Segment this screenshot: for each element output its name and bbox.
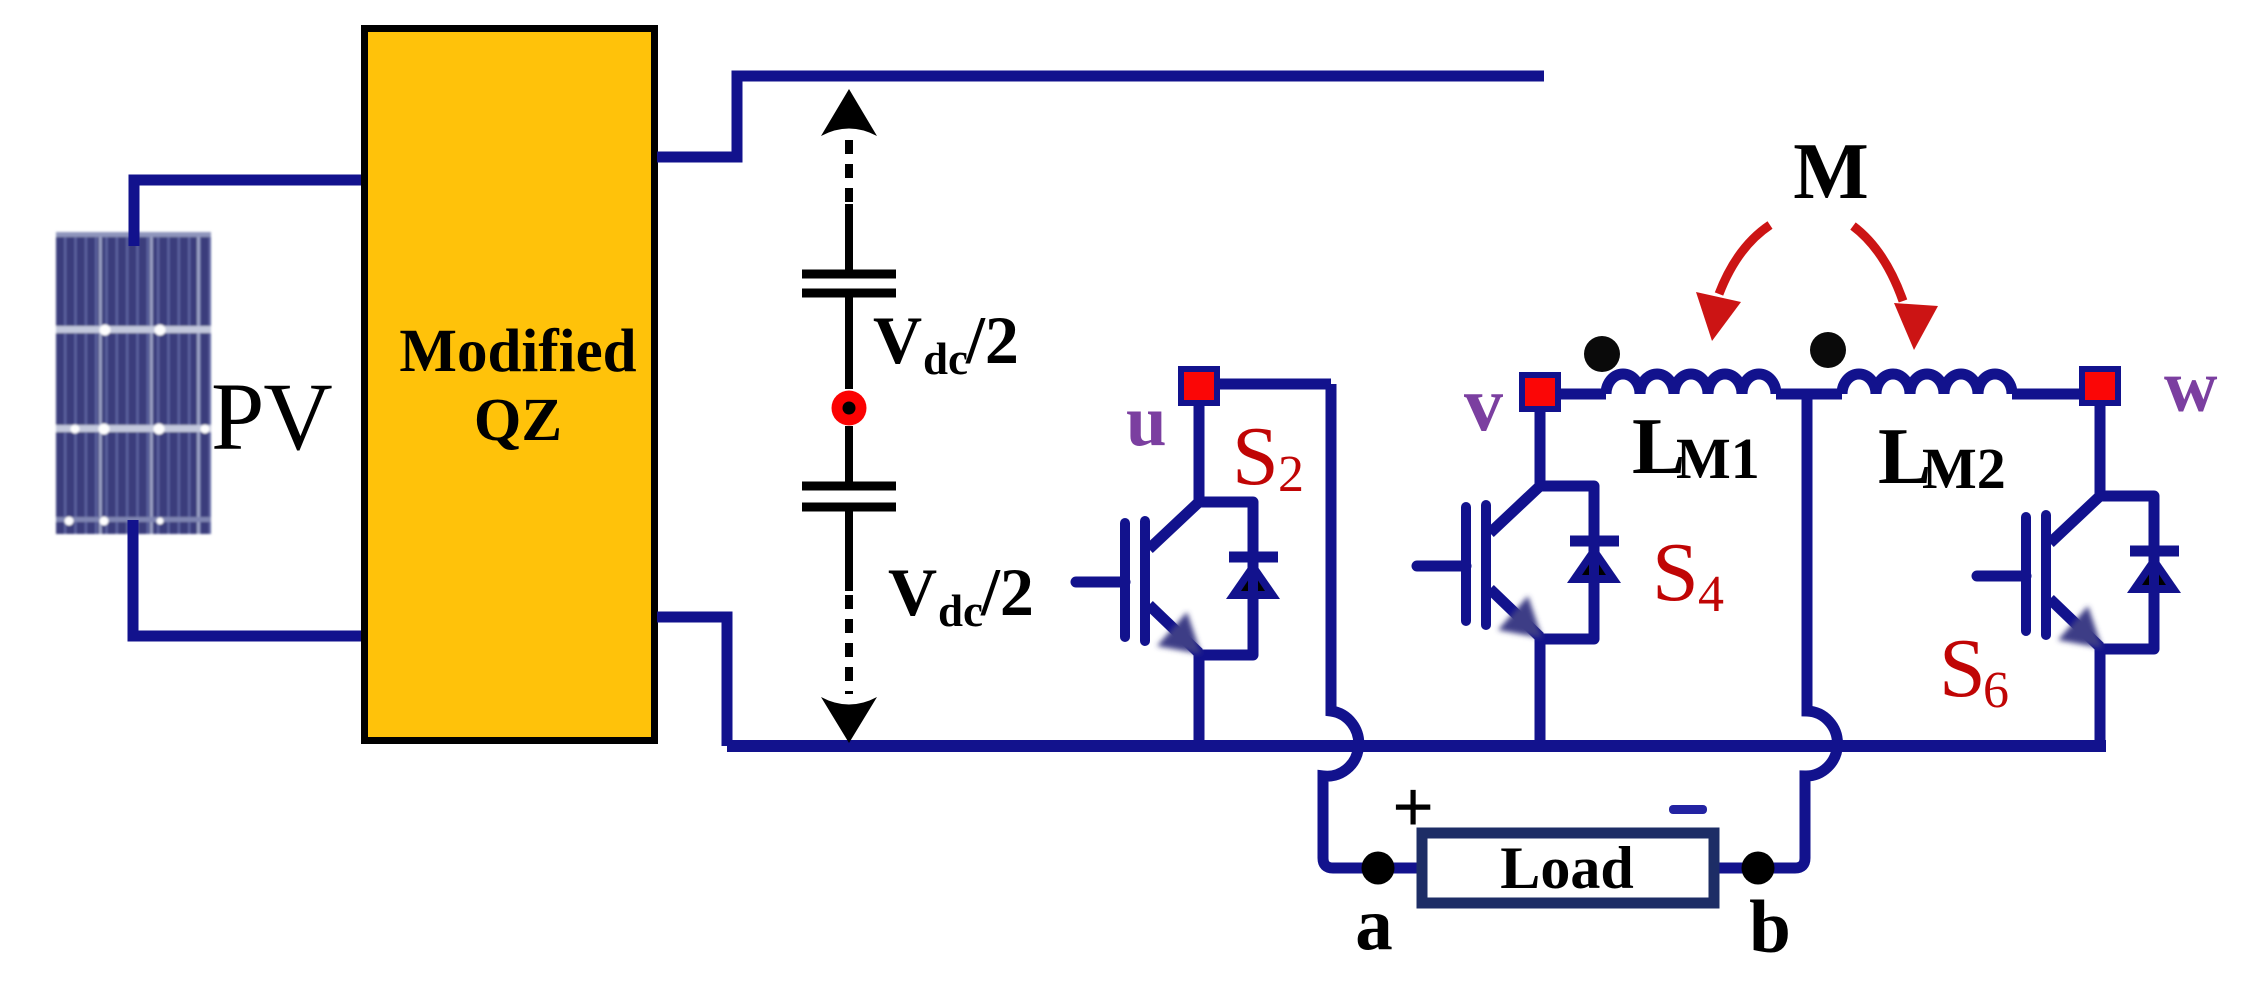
transistor S2 emitter diagonal bbox=[1149, 605, 1199, 653]
transistor S6 emitter diagonal bbox=[2050, 599, 2100, 647]
terminal square of S4 bbox=[1522, 375, 1558, 409]
dashed measurement line bottom bbox=[845, 595, 853, 694]
svg-text:/2: /2 bbox=[980, 554, 1034, 630]
svg-text:w: w bbox=[2164, 346, 2218, 428]
transistor S4 body bar bbox=[1481, 505, 1491, 625]
dashed measurement line top bbox=[845, 140, 853, 206]
bottom DC rail wire bbox=[727, 740, 2106, 752]
transistor S6 body bar bbox=[2041, 515, 2051, 635]
svg-text:V: V bbox=[888, 554, 937, 630]
wire LM2 to w square bbox=[2012, 389, 2079, 400]
wire C1 to midpoint node bbox=[845, 297, 853, 389]
svg-text:v: v bbox=[1464, 360, 1503, 447]
wire QZ output to top DC rail bbox=[657, 76, 1544, 157]
transistor S6 collector diagonal bbox=[2050, 496, 2100, 543]
svg-text:M2: M2 bbox=[1922, 436, 2006, 501]
transistor S4 main wiring bbox=[1540, 410, 1594, 746]
svg-text:u: u bbox=[1126, 380, 1167, 461]
transistor S4 emitter arrowhead bbox=[1498, 596, 1542, 638]
midpoint node (red) bbox=[832, 391, 867, 426]
diode of S6 cathode bar bbox=[2130, 546, 2179, 557]
polarity dot of LM1 bbox=[1584, 336, 1620, 372]
transistor S6 gate bar bbox=[2021, 517, 2031, 631]
svg-text:+: + bbox=[1392, 767, 1434, 849]
transistor S2 body bar bbox=[1140, 521, 1150, 641]
wire midpoint node to C2 bbox=[845, 426, 853, 482]
wire bypass branch down with hop over rail to node a bbox=[1323, 384, 1425, 868]
capacitor C1 bbox=[802, 270, 896, 279]
wire v square to inductor LM1 bbox=[1561, 389, 1606, 400]
arrowhead down of Vdc span bbox=[821, 697, 877, 743]
minus sign bbox=[1669, 805, 1707, 814]
transistor S6 gate lead bbox=[1977, 571, 2026, 582]
svg-text:Modified: Modified bbox=[399, 318, 636, 385]
capacitor C2 bbox=[802, 482, 896, 491]
wire PV positive to Modified QZ input bbox=[134, 180, 364, 246]
red arrow M to LM2 bbox=[1853, 226, 1903, 301]
wire S2 square to bypass branch bbox=[1220, 379, 1331, 390]
diode of S4 black arrow mark bbox=[1582, 557, 1606, 575]
transistor S2 collector diagonal bbox=[1149, 502, 1199, 549]
wire junction down with hop over rail to node b bbox=[1712, 394, 1837, 868]
diode of S4 center lead over mark bbox=[1589, 541, 1599, 583]
svg-text:QZ: QZ bbox=[474, 387, 562, 454]
svg-text:/2: /2 bbox=[965, 302, 1019, 378]
svg-text:S: S bbox=[1939, 622, 1986, 715]
terminal square of S2 bbox=[1181, 369, 1217, 403]
red arrow M to LM1 bbox=[1719, 225, 1770, 294]
terminal square of S6 bbox=[2082, 369, 2118, 403]
diode of S6 center lead over mark bbox=[2149, 551, 2159, 593]
diode of S4 cathode bar bbox=[1570, 536, 1619, 547]
transistor S2 emitter arrowhead bbox=[1157, 612, 1201, 654]
svg-text:6: 6 bbox=[1983, 662, 2009, 719]
wire LM1 to LM2 junction bbox=[1776, 389, 1842, 400]
transistor S4 gate lead bbox=[1417, 561, 1466, 572]
converter block Modified QZ bbox=[365, 29, 655, 741]
wire C2 bottom lead bbox=[845, 511, 853, 591]
diode of S2 center lead over mark bbox=[1248, 557, 1258, 599]
svg-text:V: V bbox=[873, 302, 922, 378]
node b bbox=[1742, 852, 1775, 885]
transistor S4 emitter diagonal bbox=[1490, 589, 1540, 637]
svg-text:S: S bbox=[1232, 410, 1279, 503]
svg-text:M: M bbox=[1793, 128, 1869, 216]
load box bbox=[1422, 833, 1714, 903]
svg-text:4: 4 bbox=[1698, 566, 1724, 623]
wire top plate lead bbox=[845, 204, 853, 270]
diode of S2 cathode bar bbox=[1229, 552, 1278, 563]
photovoltaic panel PV bbox=[56, 232, 211, 534]
arrowhead up of Vdc span bbox=[821, 89, 877, 136]
transistor S4 gate bar bbox=[1461, 507, 1471, 621]
diode of S2 triangle bbox=[1226, 560, 1280, 599]
inductor LM1 bbox=[1606, 374, 1776, 394]
svg-text:Load: Load bbox=[1500, 835, 1633, 901]
svg-text:PV: PV bbox=[211, 363, 332, 470]
diode of S6 black arrow mark bbox=[2142, 567, 2166, 585]
svg-text:b: b bbox=[1749, 886, 1791, 969]
wire PV negative to Modified QZ input bbox=[133, 520, 364, 636]
inductor LM2 bbox=[1842, 374, 2012, 394]
diode of S4 triangle bbox=[1567, 544, 1621, 583]
transistor S6 main wiring bbox=[2100, 404, 2154, 746]
diode of S2 black arrow mark bbox=[1241, 573, 1265, 591]
svg-text:dc: dc bbox=[938, 586, 983, 636]
svg-text:a: a bbox=[1355, 883, 1393, 966]
diode of S6 triangle bbox=[2127, 554, 2181, 593]
wire QZ output to bottom DC rail bbox=[657, 617, 727, 746]
svg-text:2: 2 bbox=[1278, 446, 1304, 503]
transistor S6 emitter arrowhead bbox=[2058, 606, 2102, 648]
transistor S2 gate bar bbox=[1120, 523, 1130, 637]
polarity dot of LM2 bbox=[1810, 332, 1846, 368]
svg-text:M1: M1 bbox=[1676, 426, 1760, 491]
transistor S2 main wiring bbox=[1199, 404, 1253, 746]
svg-text:dc: dc bbox=[923, 334, 968, 384]
transistor S2 gate lead bbox=[1076, 577, 1125, 588]
transistor S4 collector diagonal bbox=[1490, 486, 1540, 533]
node a bbox=[1362, 852, 1395, 885]
svg-text:S: S bbox=[1652, 526, 1699, 619]
